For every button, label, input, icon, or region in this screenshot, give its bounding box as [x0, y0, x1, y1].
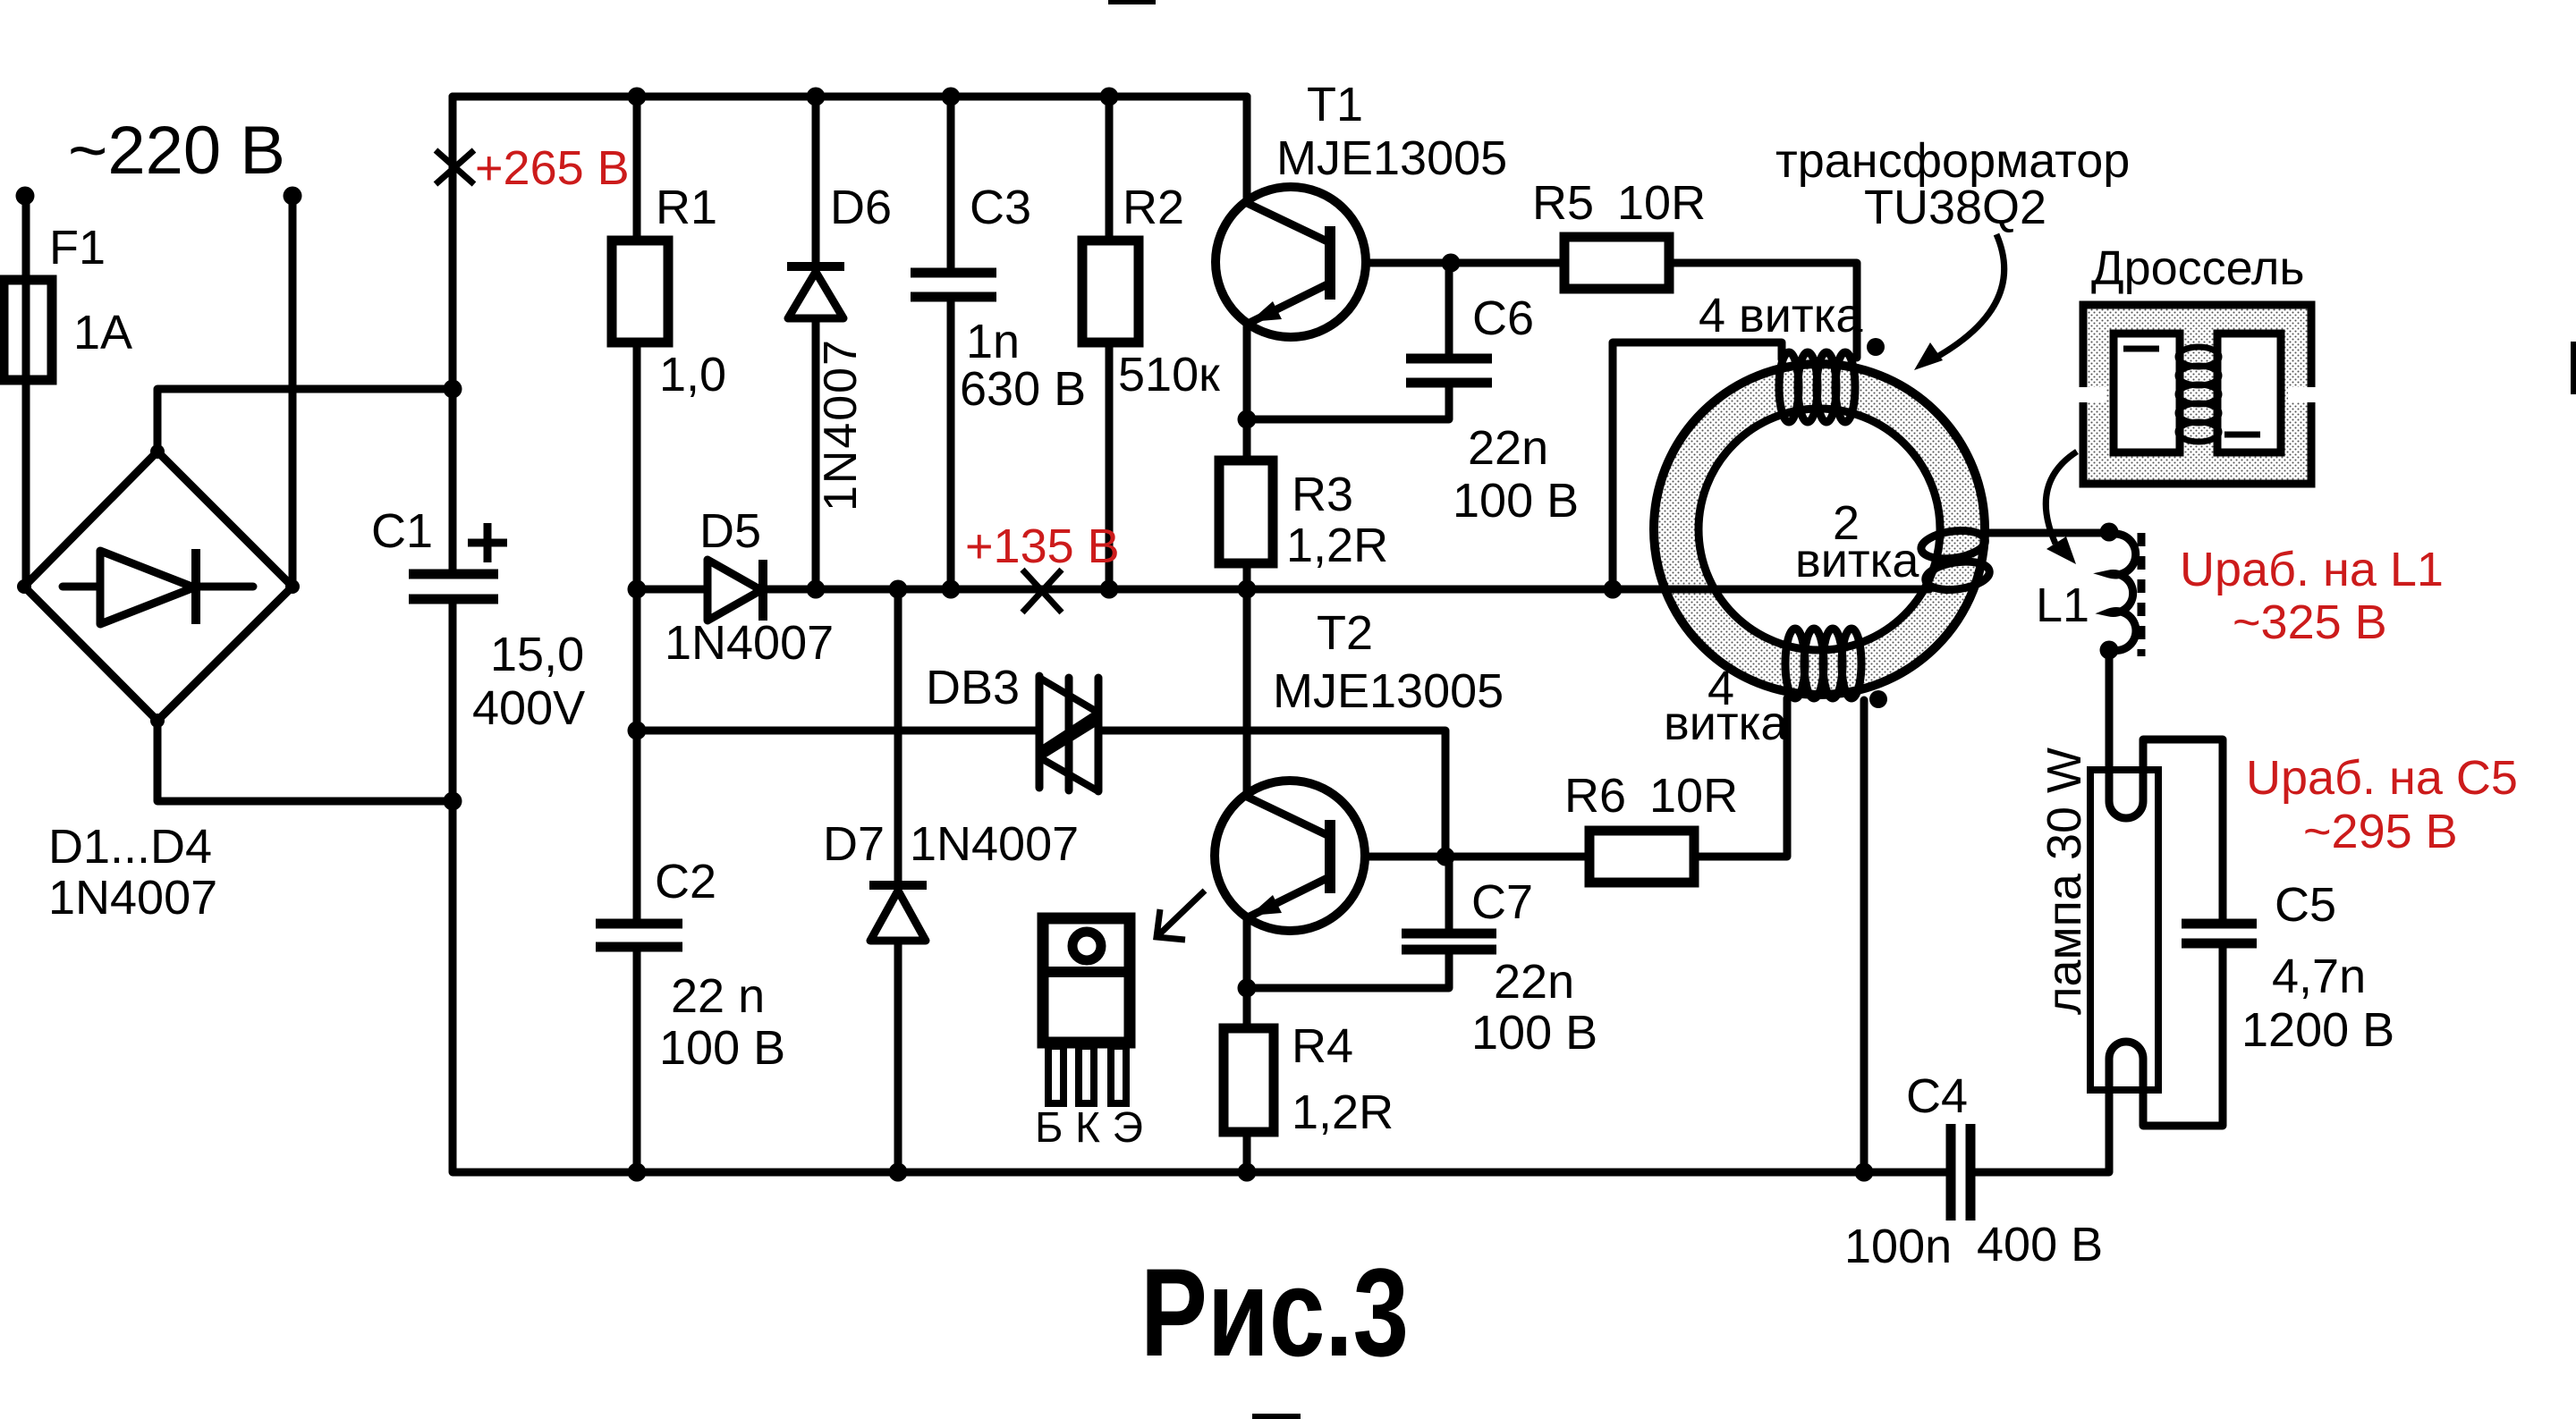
svg-text:+135 В: +135 В	[965, 519, 1120, 573]
junction DB3 row C2 branch	[628, 722, 647, 740]
phase dot bottom	[1869, 690, 1887, 708]
svg-text:MJE13005: MJE13005	[1273, 664, 1504, 718]
svg-text:1,2R: 1,2R	[1292, 1085, 1394, 1139]
wire C3 branch	[947, 97, 955, 589]
svg-text:4 витка: 4 витка	[1699, 289, 1863, 342]
capacitor C3	[911, 268, 996, 278]
wire mid bus from D5 through toroid to 2-turn winding	[763, 586, 1929, 594]
svg-text:400 В: 400 В	[1977, 1218, 2103, 1271]
svg-text:+265 В: +265 В	[475, 141, 630, 195]
svg-text:MJE13005: MJE13005	[1276, 131, 1507, 185]
svg-text:L1: L1	[2036, 579, 2089, 632]
svg-text:~325 В: ~325 В	[2233, 595, 2387, 649]
svg-text:1200 В: 1200 В	[2241, 1003, 2394, 1057]
wire 2-turn winding to L1	[1985, 529, 2109, 537]
wire R1/C2 branch	[633, 97, 641, 1172]
toroid bottom winding 4 turns	[1785, 629, 1861, 698]
wire bridge minus output to bottom bus	[157, 721, 453, 801]
svg-text:400V: 400V	[472, 681, 585, 735]
thyristor package outline (Б К Э)	[1038, 918, 1135, 1103]
svg-text:100 В: 100 В	[1471, 1006, 1597, 1060]
wire D6 branch	[812, 97, 820, 589]
svg-text:1N4007: 1N4007	[910, 817, 1079, 871]
L1 core dashed	[2138, 533, 2146, 656]
svg-text:630 В: 630 В	[960, 362, 1086, 416]
resistor R1	[612, 241, 668, 342]
junction top bus D6	[807, 88, 826, 106]
capacitor C7	[1402, 929, 1496, 939]
junction T2 emitter C7 return	[1238, 979, 1257, 998]
svg-text:C7: C7	[1471, 875, 1533, 929]
svg-text:1A: 1A	[73, 306, 132, 359]
svg-text:10R: 10R	[1617, 176, 1706, 230]
transformer TU38Q2 toroid core	[1654, 364, 1985, 695]
svg-text:D6: D6	[830, 181, 892, 234]
svg-text:D1...D4: D1...D4	[48, 820, 212, 874]
svg-text:Uраб. на L1: Uраб. на L1	[2180, 543, 2444, 596]
capacitor C5	[2182, 919, 2257, 929]
svg-text:~220 В: ~220 В	[68, 113, 285, 189]
svg-text:1,2R: 1,2R	[1286, 519, 1388, 572]
svg-text:Рис.3: Рис.3	[1140, 1242, 1409, 1382]
wire T1 base to R5 and to transformer top winding	[1336, 263, 1857, 358]
svg-text:витка: витка	[1664, 697, 1788, 750]
svg-text:Uраб. на C5: Uраб. на C5	[2246, 751, 2518, 805]
junction T1 base C6 R5	[1442, 254, 1461, 273]
wire T1 emitter and R3 branch	[1243, 320, 1251, 589]
junction bridge plus C1	[444, 380, 462, 399]
choke box (Дроссель)	[2078, 305, 2317, 484]
diode D5	[708, 560, 761, 621]
junction top bus R2	[1100, 88, 1119, 106]
resistor R3	[1219, 460, 1273, 563]
wire toroid bottom winding to bottom bus	[1860, 700, 1868, 1172]
junction top bus C3	[942, 88, 961, 106]
junction bridge minus C1	[444, 792, 462, 811]
node L1 top	[2100, 523, 2119, 542]
svg-text:1N4007: 1N4007	[815, 340, 867, 511]
arrow TU38Q2 to toroid	[1928, 234, 2004, 362]
junction bottom bus D7	[889, 1163, 908, 1182]
wire T2 collector	[1243, 589, 1251, 797]
diode D7	[869, 881, 927, 890]
toroid right winding 2 turns	[1919, 527, 1991, 593]
capacitor C2	[596, 919, 682, 929]
wire lamp loop bottom with C5 lower, to C4	[1974, 945, 2223, 1172]
wire T2 base to R6 and to transformer bottom winding	[1336, 698, 1787, 857]
wire D7 branch	[894, 589, 902, 1172]
svg-text:трансформатор: трансформатор	[1775, 134, 2130, 188]
wire C1 branch lower and bottom bus	[453, 601, 1946, 1172]
wire AC input left lower	[22, 380, 30, 587]
svg-text:D7: D7	[823, 817, 885, 871]
svg-text:Дроссель: Дроссель	[2091, 241, 2305, 295]
svg-text:100n: 100n	[1844, 1220, 1952, 1273]
resistor R2	[1082, 241, 1139, 342]
bridge rectifier D1...D4	[24, 452, 292, 721]
wire AC input right	[289, 204, 297, 587]
scan artifact bottom	[1252, 1414, 1301, 1419]
svg-text:C6: C6	[1472, 291, 1534, 345]
svg-text:100 В: 100 В	[1453, 474, 1579, 528]
transistor T2	[1215, 781, 1365, 931]
junction bottom bus C2	[628, 1163, 647, 1182]
svg-text:D5: D5	[699, 504, 761, 558]
capacitor C1	[409, 570, 498, 579]
junction T1 emitter C6 return	[1238, 410, 1257, 429]
svg-text:TU38Q2: TU38Q2	[1864, 181, 2046, 234]
svg-text:витка: витка	[1795, 534, 1919, 587]
scan artifact top	[1108, 0, 1156, 4]
svg-text:~295 В: ~295 В	[2303, 805, 2458, 858]
svg-text:22 n: 22 n	[671, 969, 765, 1023]
svg-text:4,7n: 4,7n	[2272, 950, 2366, 1003]
node L1 bottom	[2100, 641, 2119, 660]
wire toroid top winding to mid bus rectangle	[1613, 342, 1782, 589]
wire C1 branch upper	[449, 97, 457, 572]
svg-text:R4: R4	[1292, 1019, 1353, 1073]
svg-text:1N4007: 1N4007	[48, 871, 217, 925]
scan artifact right	[2571, 342, 2576, 394]
svg-text:R6: R6	[1564, 769, 1626, 823]
transistor T1	[1216, 187, 1366, 337]
terminal left	[16, 187, 35, 206]
terminal right	[284, 187, 302, 206]
wire DB3 row to T2 base	[637, 731, 1445, 857]
svg-text:R2: R2	[1123, 181, 1184, 234]
wire L1 to lamp, lamp loop top with C5 upper	[2109, 653, 2223, 922]
svg-text:Б К Э: Б К Э	[1035, 1104, 1143, 1152]
svg-text:F1: F1	[49, 221, 106, 275]
junction mid bus R1	[628, 580, 647, 599]
arrow choke to L1	[2046, 452, 2077, 544]
svg-text:15,0: 15,0	[490, 628, 584, 681]
junction mid bus R3 T2	[1238, 580, 1257, 599]
wire C7 branch	[1247, 857, 1449, 988]
junction mid bus D6	[807, 580, 826, 599]
wire T2 emitter and R4 branch	[1243, 916, 1251, 1172]
wire mid bus left of D5	[637, 586, 709, 594]
svg-text:100 В: 100 В	[659, 1021, 785, 1075]
junction mid bus D7	[889, 580, 908, 599]
svg-text:R5: R5	[1532, 176, 1594, 230]
junction T2 base C7 R6	[1436, 848, 1455, 866]
svg-text:1,0: 1,0	[659, 348, 726, 401]
svg-text:T1: T1	[1307, 78, 1363, 131]
junction mid bus transformer lead	[1604, 580, 1623, 599]
svg-text:C1: C1	[371, 504, 433, 558]
svg-text:C4: C4	[1906, 1069, 1968, 1123]
diode inside bridge	[63, 583, 253, 591]
svg-text:DB3: DB3	[926, 661, 1020, 714]
capacitor C6	[1406, 354, 1492, 364]
svg-text:T2: T2	[1317, 606, 1373, 660]
svg-text:22n: 22n	[1468, 421, 1548, 475]
capacitor C4	[1946, 1124, 1956, 1221]
resistor R5	[1564, 237, 1669, 289]
svg-text:R3: R3	[1292, 468, 1353, 521]
wire R2 branch	[1106, 97, 1114, 589]
X mark +265	[436, 150, 474, 184]
wire T1 collector	[1243, 97, 1251, 204]
resistor R6	[1589, 831, 1694, 883]
fuse F1	[4, 280, 52, 380]
svg-text:C5: C5	[2275, 878, 2336, 932]
svg-text:C3: C3	[970, 181, 1031, 234]
toroid top winding 4 turns	[1779, 352, 1855, 422]
svg-text:1N4007: 1N4007	[665, 616, 834, 670]
junction mid bus R2	[1100, 580, 1119, 599]
wire C6 branch	[1247, 263, 1449, 419]
junction top bus R1	[628, 88, 647, 106]
diac DB3	[1039, 676, 1098, 791]
svg-text:C2: C2	[655, 855, 716, 908]
svg-text:1n: 1n	[966, 315, 1020, 368]
junction bottom bus R4	[1238, 1163, 1257, 1182]
svg-text:22n: 22n	[1494, 955, 1574, 1009]
wire top bus	[453, 93, 1247, 101]
diode D6	[787, 262, 844, 271]
arrow package to T2	[1157, 891, 1205, 940]
phase dot top	[1867, 338, 1885, 356]
X mark +135	[1022, 570, 1062, 612]
wire bridge plus output to C1 node	[157, 389, 453, 452]
lamp tube	[2090, 770, 2158, 1090]
svg-text:R1: R1	[656, 181, 717, 234]
junction mid bus C3	[942, 580, 961, 599]
svg-text:510к: 510к	[1118, 348, 1220, 401]
svg-text:10R: 10R	[1649, 769, 1738, 823]
junction bottom bus transformer lead	[1855, 1163, 1874, 1182]
inductor L1	[2109, 534, 2136, 651]
wire AC input left upper	[22, 204, 30, 280]
svg-text:лампа 30 W: лампа 30 W	[2038, 748, 2091, 1015]
resistor R4	[1224, 1028, 1274, 1132]
